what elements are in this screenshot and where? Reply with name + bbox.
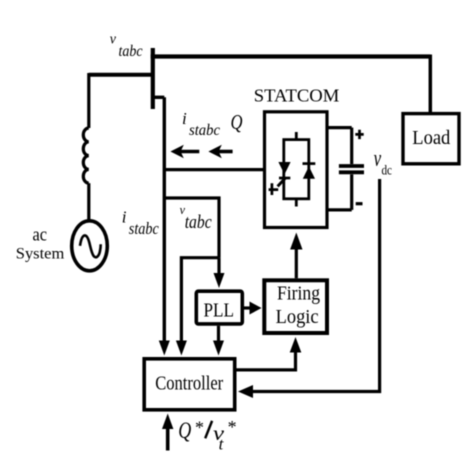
svg-text:ac: ac <box>33 224 48 245</box>
wire: jog from bus <box>153 96 165 99</box>
svg-text:i: i <box>122 208 127 227</box>
capacitor C (dc link) <box>339 128 364 210</box>
arrow i_stabc direction (left) <box>170 145 199 158</box>
wire: v_tabc measurement branch <box>164 198 219 258</box>
svg-text:stabc: stabc <box>129 219 159 238</box>
svg-text:Firing: Firing <box>277 283 320 305</box>
ac source symbol <box>72 221 108 271</box>
svg-text:i: i <box>182 109 187 128</box>
wire: i_stabc bus down to controller <box>163 97 166 342</box>
svg-text:Q: Q <box>178 418 191 443</box>
label v_tabc (top) <box>110 31 143 60</box>
wire PLL to Firing Logic with arrow <box>244 302 262 315</box>
wire: drop to load box <box>429 55 433 113</box>
svg-text:tabc: tabc <box>185 212 212 233</box>
box Controller <box>144 359 235 410</box>
box STATCOM <box>265 112 328 228</box>
arrow into controller (i_stabc) <box>159 341 170 356</box>
wire Firing Logic to STATCOM with arrow <box>290 233 302 279</box>
thyristor (left leg, pointing down) <box>269 162 291 195</box>
svg-text:Logic: Logic <box>276 306 319 328</box>
wire v_dc feedback to controller with arrow <box>238 179 380 398</box>
svg-text:v: v <box>110 31 117 47</box>
diode (right leg, pointing up) <box>303 164 316 179</box>
label - (dc link polarity) <box>356 202 363 205</box>
wire: bus to STATCOM <box>164 168 263 171</box>
label ac System <box>16 224 65 262</box>
arrow Q direction (left) <box>208 145 232 158</box>
wire: source riser <box>87 73 90 128</box>
wire reference input Q*/v_t* with arrow <box>162 414 173 451</box>
wire controller to Firing Logic with arrow <box>236 337 301 370</box>
svg-text:System: System <box>16 246 65 263</box>
svg-text:v: v <box>374 146 382 172</box>
wire: STATCOM to capacitor top <box>327 126 352 129</box>
wire: inductor to source <box>87 183 90 222</box>
label Q*/v_t* <box>178 417 236 454</box>
wire: STATCOM to capacitor bottom <box>327 208 352 211</box>
inductor (source impedance) <box>83 128 89 183</box>
wire into PLL with arrow <box>214 258 225 288</box>
svg-text:*: * <box>195 418 204 438</box>
label i_stabc Q (flow direction) <box>182 109 243 139</box>
svg-text:dc: dc <box>382 164 393 179</box>
box Firing Logic <box>264 280 327 333</box>
svg-text:tabc: tabc <box>119 43 143 60</box>
label i_stabc (source current) <box>122 208 159 239</box>
wire: branch to controller <box>176 258 219 356</box>
svg-text:PLL: PLL <box>204 300 235 322</box>
svg-text:*: * <box>228 417 237 437</box>
label Firing Logic <box>276 283 320 328</box>
wire: left branch horizontal <box>89 73 153 77</box>
svg-text:STATCOM: STATCOM <box>254 86 339 106</box>
svg-text:Q: Q <box>231 110 243 134</box>
bridge bottom stub <box>295 199 298 207</box>
wire: top line to load <box>151 54 431 58</box>
label + (dc link polarity) <box>355 130 363 139</box>
box PLL <box>196 291 242 324</box>
bridge top stub <box>295 132 298 140</box>
label v_dc <box>374 146 392 179</box>
svg-text:Load: Load <box>412 127 450 149</box>
wire PLL to controller with arrow <box>213 326 224 356</box>
box Load <box>403 114 459 164</box>
node v_tabc bus stub <box>151 48 155 109</box>
svg-text:Controller: Controller <box>155 373 223 395</box>
svg-text:stabc: stabc <box>189 122 220 139</box>
label v_tabc (measurement) <box>180 203 213 233</box>
bridge inner box <box>284 140 309 199</box>
